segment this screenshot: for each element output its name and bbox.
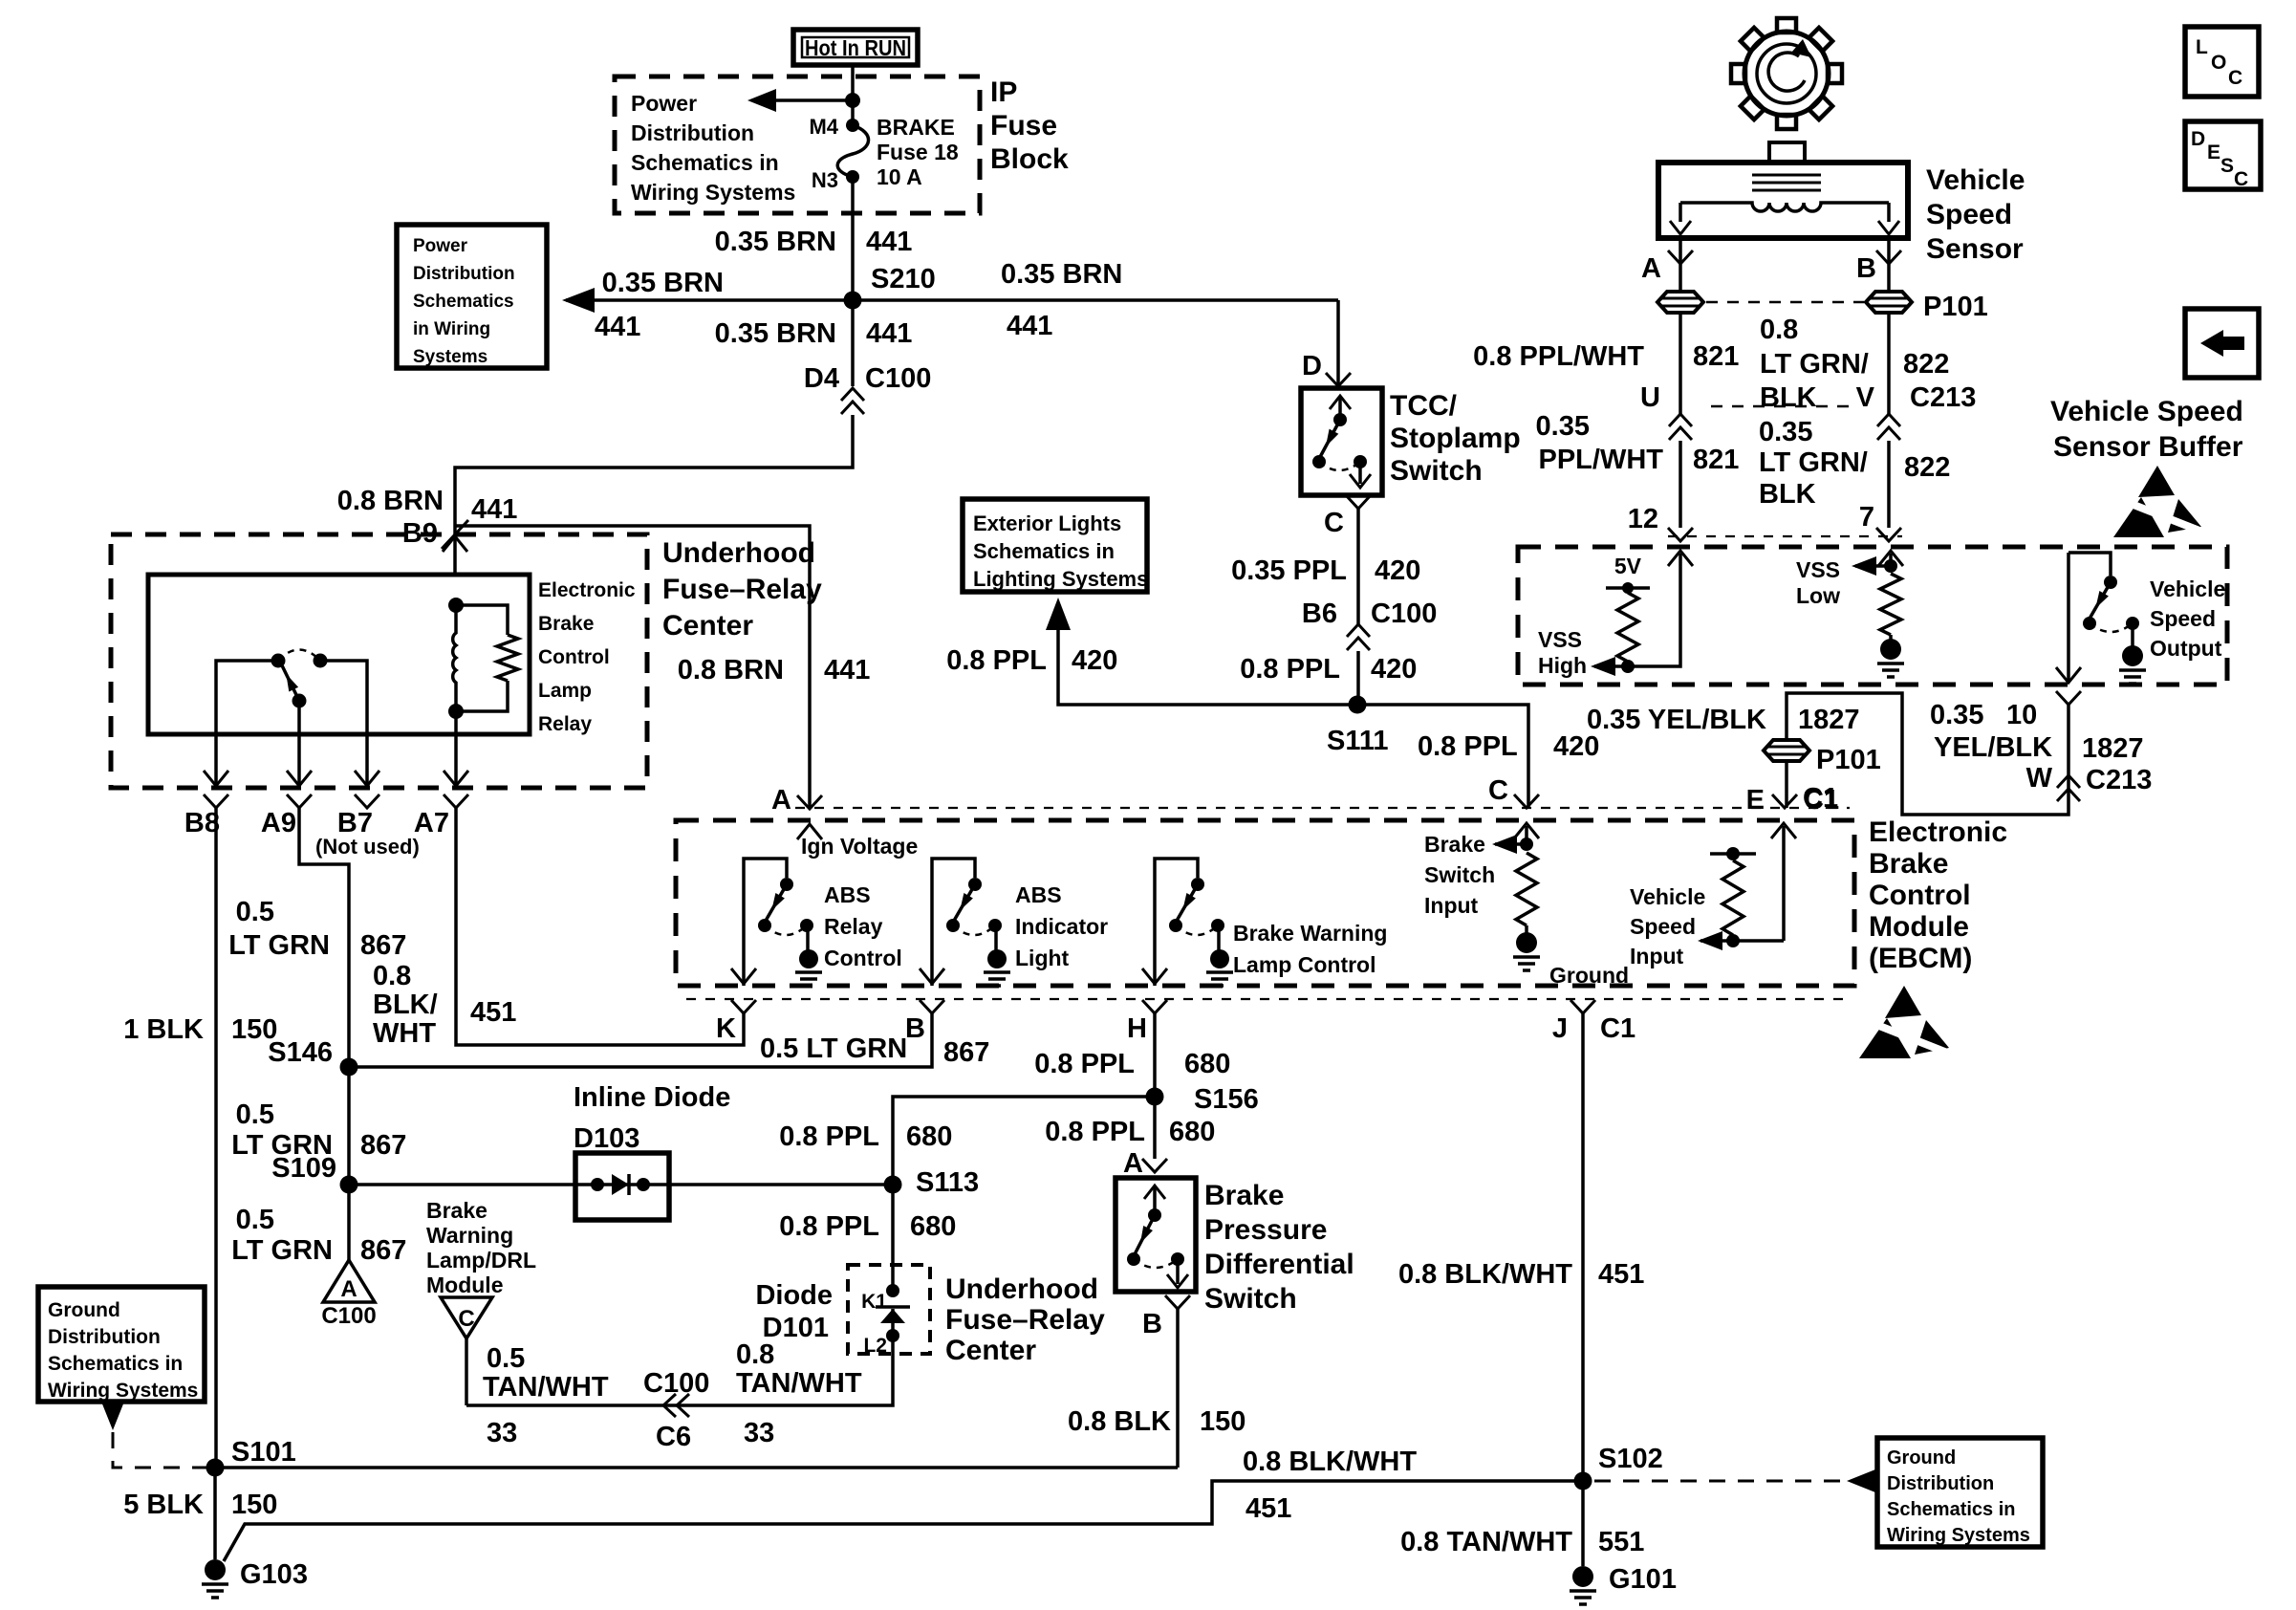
svg-text:Wiring Systems: Wiring Systems xyxy=(48,1380,198,1402)
svg-text:680: 680 xyxy=(1184,1049,1230,1079)
VSI pullup top node xyxy=(1726,847,1740,860)
svg-text:D: D xyxy=(2191,128,2205,150)
svg-text:LT GRN/: LT GRN/ xyxy=(1760,349,1869,380)
svg-text:Low: Low xyxy=(1796,583,1840,608)
svg-text:C213: C213 xyxy=(1910,382,1976,413)
pin chevron B7 xyxy=(355,794,379,808)
TCC switch internals xyxy=(1330,396,1351,409)
svg-text:Systems: Systems xyxy=(413,347,487,367)
pin exit arrow x=477 xyxy=(444,771,468,786)
connector tick B9 xyxy=(442,520,468,549)
svg-text:0.8: 0.8 xyxy=(1760,315,1798,345)
vehicle speed sensor tone wheel (gear) xyxy=(1731,18,1842,129)
svg-text:Block: Block xyxy=(990,143,1069,175)
svg-text:0.5: 0.5 xyxy=(487,1343,525,1374)
connector C213 pin V (double chevron) xyxy=(1877,414,1900,440)
svg-text:Control: Control xyxy=(824,946,902,970)
svg-text:0.8 PPL: 0.8 PPL xyxy=(946,645,1047,676)
fuse terminal M4 xyxy=(846,119,859,132)
svg-text:0.8 TAN/WHT: 0.8 TAN/WHT xyxy=(1400,1527,1572,1557)
svg-text:Sensor Buffer: Sensor Buffer xyxy=(2053,431,2243,463)
svg-text:867: 867 xyxy=(360,1130,406,1161)
svg-text:Relay: Relay xyxy=(824,914,883,939)
pin exit arrow x=226 xyxy=(204,771,228,786)
svg-text:S101: S101 xyxy=(231,1437,296,1468)
Ground Distribution Schematics reference box (right) xyxy=(1877,1438,2043,1547)
svg-text:420: 420 xyxy=(1375,555,1420,586)
pin chevron H xyxy=(1142,1000,1167,1013)
fuse BRAKE Fuse 18 10A element xyxy=(837,125,868,177)
svg-text:in Wiring: in Wiring xyxy=(413,319,490,339)
svg-text:Fuse 18: Fuse 18 xyxy=(877,140,959,164)
svg-text:Vehicle: Vehicle xyxy=(2150,577,2225,601)
svg-text:Switch: Switch xyxy=(1390,455,1483,487)
wire 0.8 PPL 420 to S111 xyxy=(1356,651,1360,705)
svg-text:Power: Power xyxy=(413,236,468,256)
Brake Warning Lamp Control pivot xyxy=(1191,878,1204,891)
ground G101 xyxy=(1572,1566,1593,1587)
Power Distribution Schematics reference box xyxy=(397,225,547,368)
wire 0.5 LT GRN 867 S146 to EBCM B xyxy=(349,1012,932,1067)
wire 0.8 PPL 680 S109 to S113 (inline diode row) xyxy=(349,1183,893,1186)
BPDS switch arm xyxy=(1135,1215,1155,1254)
svg-text:O: O xyxy=(2211,52,2226,74)
svg-text:High: High xyxy=(1538,653,1587,678)
pin entry arrow E xyxy=(1771,823,1796,838)
svg-text:C: C xyxy=(1324,508,1344,538)
svg-text:Differential: Differential xyxy=(1204,1249,1354,1280)
VSI bottom node xyxy=(1726,934,1740,947)
EBCM dashed box (Electronic Brake Control Module) xyxy=(676,820,1854,986)
back arrow xyxy=(2200,330,2244,357)
pin chevron K xyxy=(731,1000,756,1013)
pin chevron J xyxy=(1570,1000,1595,1013)
svg-text:5V: 5V xyxy=(1614,554,1642,578)
svg-text:Distribution: Distribution xyxy=(1887,1473,1994,1494)
sensor core lines xyxy=(1752,175,1821,190)
TCC output stem xyxy=(1358,462,1362,484)
svg-text:Control: Control xyxy=(1869,880,1971,911)
BPDS output stem xyxy=(1176,1259,1180,1284)
wire 0.8 PPL 680 S156 to S113 xyxy=(893,1097,1155,1185)
svg-text:Speed: Speed xyxy=(1926,199,2012,230)
Brake Switch Input network xyxy=(1514,823,1539,838)
dashed reference wire S102 to ground distribution box xyxy=(1594,1480,1845,1483)
svg-text:TCC/: TCC/ xyxy=(1390,390,1458,422)
svg-text:B: B xyxy=(1856,253,1876,284)
svg-text:C: C xyxy=(2234,168,2248,190)
relay switch arm xyxy=(281,664,299,701)
VS output left contact xyxy=(2083,617,2096,630)
sensor stub xyxy=(1769,142,1805,163)
svg-text:0.8: 0.8 xyxy=(373,961,411,991)
diode D101 symbol xyxy=(876,1305,910,1309)
pin exit arrow (ABS Indicator Light) xyxy=(920,968,944,984)
svg-text:B6: B6 xyxy=(1302,598,1337,629)
Brake Warning Lamp Control ground stem xyxy=(1217,925,1221,950)
Ground Distribution Schematics reference box (left) xyxy=(38,1287,205,1402)
svg-text:441: 441 xyxy=(866,318,912,349)
Brake Warning Lamp Control right contact xyxy=(1211,919,1224,932)
ABS Relay Control pivot xyxy=(780,878,793,891)
svg-text:PPL/WHT: PPL/WHT xyxy=(1539,445,1664,475)
wire 0.5 TAN/WHT 33 C100 to DRL module C xyxy=(465,1338,468,1405)
svg-text:Brake: Brake xyxy=(1204,1180,1284,1211)
svg-text:E: E xyxy=(2207,141,2220,163)
P101 dashed link xyxy=(1706,301,1864,304)
vehicle speed output switch xyxy=(2069,553,2111,576)
svg-text:680: 680 xyxy=(906,1121,952,1152)
wire 0.35 BRN 441 main horizontal xyxy=(566,298,1338,302)
svg-text:Lamp Control: Lamp Control xyxy=(1233,952,1376,977)
TCC/Stoplamp Switch box xyxy=(1301,388,1382,495)
svg-text:Fuse–Relay: Fuse–Relay xyxy=(662,574,822,605)
resistor vehicle speed input xyxy=(1722,860,1744,935)
LOC reference box xyxy=(2185,27,2259,97)
Brake Pressure Differential Switch box xyxy=(1116,1178,1196,1292)
Underhood Fuse-Relay Center dashed box xyxy=(111,534,647,788)
svg-text:BLK: BLK xyxy=(1760,382,1817,413)
ground symbol (VS output) xyxy=(2122,645,2143,666)
svg-text:867: 867 xyxy=(360,930,406,961)
wire 0.8 PPL/WHT 821 xyxy=(1679,313,1682,414)
pin chevron E (EBCM) xyxy=(1772,794,1797,808)
VS output dashed arc xyxy=(2090,623,2133,632)
TCC switch arm xyxy=(1320,420,1340,457)
svg-text:Distribution: Distribution xyxy=(631,120,754,145)
junction S111 xyxy=(1349,696,1367,714)
svg-text:12: 12 xyxy=(1628,504,1658,534)
wire sensor A to P101 xyxy=(1679,238,1682,294)
svg-text:U: U xyxy=(1640,382,1660,413)
svg-text:S109: S109 xyxy=(271,1153,336,1184)
ABS Relay Control arm xyxy=(766,884,787,921)
relay resistor parallel branch xyxy=(456,605,508,635)
relay switch pivot xyxy=(271,654,286,668)
connector C213 pin U (double chevron) xyxy=(1669,414,1692,440)
svg-text:P101: P101 xyxy=(1923,292,1988,322)
svg-text:0.35: 0.35 xyxy=(1759,417,1812,447)
EBCM connector face line (bottom) xyxy=(686,998,1850,1000)
svg-text:441: 441 xyxy=(824,655,870,685)
svg-text:J: J xyxy=(1552,1013,1568,1044)
Brake Warning Lamp Control arm xyxy=(1177,884,1198,921)
svg-text:LT GRN/: LT GRN/ xyxy=(1759,447,1868,478)
wire 5 BLK 150 S101 to G103 xyxy=(213,1468,217,1559)
EBCM switch ABS Indicator Light xyxy=(932,859,975,986)
BPDS top contact xyxy=(1148,1208,1161,1222)
wire VSI to pin E xyxy=(1782,826,1786,941)
relay coil bottom node xyxy=(448,704,464,719)
ground symbol (ABS Indicator Light) xyxy=(987,949,1007,968)
pin chevron A (VSS) xyxy=(1668,250,1693,264)
svg-text:Underhood: Underhood xyxy=(945,1273,1098,1305)
relay coil top node xyxy=(448,598,464,613)
svg-text:0.5 LT GRN: 0.5 LT GRN xyxy=(760,1033,907,1064)
svg-text:0.5: 0.5 xyxy=(236,897,274,927)
svg-text:451: 451 xyxy=(470,997,516,1028)
svg-text:K: K xyxy=(716,1013,736,1044)
pin chevron A7 xyxy=(444,794,468,808)
svg-text:33: 33 xyxy=(487,1418,517,1448)
svg-text:Center: Center xyxy=(945,1335,1036,1366)
grommet connector P101 (A) xyxy=(1657,292,1703,313)
svg-text:ABS: ABS xyxy=(1015,882,1062,907)
svg-text:S146: S146 xyxy=(268,1037,333,1068)
ABS Indicator Light dashed arc xyxy=(953,925,995,935)
svg-text:Schematics in: Schematics in xyxy=(48,1353,183,1375)
wire 0.35 YEL/BLK 1827 buffer W to EBCM E xyxy=(1787,693,2069,815)
pin exit arrow (Brake Warning Lamp Control) xyxy=(1142,968,1167,984)
svg-text:S: S xyxy=(2220,155,2234,177)
junction S210 xyxy=(844,292,862,310)
pin chevron C (EBCM) xyxy=(1514,794,1539,808)
DESC reference box xyxy=(2185,121,2261,189)
svg-text:C100: C100 xyxy=(1371,598,1437,629)
svg-text:(Not used): (Not used) xyxy=(315,835,420,859)
wire 441 fuse N3 to S210 xyxy=(851,177,855,299)
ground symbol (brake switch input) xyxy=(1516,932,1537,953)
wire 0.5 LT GRN 867 S109 to C100 A xyxy=(347,1185,351,1260)
wire 0.8 PPL 680 S156 to BPDS A xyxy=(1153,1097,1157,1159)
svg-text:441: 441 xyxy=(1007,311,1052,341)
svg-text:0.8 PPL: 0.8 PPL xyxy=(779,1121,879,1152)
pin exit arrow (ABS Relay Control) xyxy=(731,968,756,984)
svg-text:420: 420 xyxy=(1371,654,1417,685)
svg-text:0.8: 0.8 xyxy=(736,1339,774,1370)
svg-text:7: 7 xyxy=(1859,502,1874,533)
relay switch contact xyxy=(314,654,328,668)
pin chevron D xyxy=(1326,373,1351,386)
VS output right contact xyxy=(2126,617,2139,630)
svg-text:Vehicle: Vehicle xyxy=(1630,884,1705,909)
svg-text:Fuse: Fuse xyxy=(990,110,1057,141)
sensor coil xyxy=(1680,203,1889,211)
wire 0.8 PPL 420 S111 to exterior lights xyxy=(1058,622,1357,705)
svg-text:822: 822 xyxy=(1903,349,1949,380)
svg-text:Schematics: Schematics xyxy=(413,292,514,312)
Exterior Lights Schematics reference box xyxy=(963,499,1147,592)
svg-text:1827: 1827 xyxy=(1798,705,1860,735)
pin exit arrow x=313 xyxy=(287,771,312,786)
5V top node xyxy=(1622,582,1634,594)
wire 0.8 BLK/WHT 451 to S102 (bottom run) xyxy=(224,1481,1583,1561)
connector C213 pin W (double chevron) xyxy=(2057,775,2080,801)
pin chevron B xyxy=(920,1000,944,1013)
wire to power distribution (arrow) xyxy=(755,98,853,102)
svg-text:0.8 PPL: 0.8 PPL xyxy=(1418,731,1518,762)
svg-text:C1: C1 xyxy=(1803,783,1838,814)
wire 0.8 TAN/WHT 33 D101 L2 to C100 xyxy=(466,1336,893,1405)
VS output ground stem xyxy=(2131,623,2134,646)
svg-text:0.8 PPL: 0.8 PPL xyxy=(779,1211,879,1242)
brake switch input node xyxy=(1520,838,1533,851)
svg-text:Speed: Speed xyxy=(2150,606,2216,631)
svg-text:Ground: Ground xyxy=(1887,1447,1956,1469)
Electronic Brake Control Lamp Relay box xyxy=(148,575,530,734)
svg-text:A: A xyxy=(1641,253,1661,284)
pin chevron A (BPDS) xyxy=(1142,1159,1167,1172)
svg-text:0.8 BLK: 0.8 BLK xyxy=(1068,1406,1171,1437)
ABS Relay Control right contact xyxy=(800,919,813,932)
junction S113 xyxy=(884,1176,902,1194)
wire 0.35 PPL/WHT 821 xyxy=(1679,441,1682,528)
svg-text:S113: S113 xyxy=(916,1167,979,1198)
IP Fuse Block dashed box xyxy=(615,76,980,213)
EBCM switch Brake Warning Lamp Control xyxy=(1155,859,1198,986)
EBCM connector face line (top) xyxy=(795,807,1850,809)
arrow from ground distribution box xyxy=(101,1402,124,1430)
svg-text:Brake: Brake xyxy=(1869,848,1948,880)
wire 0.8 PPL 680 S113 to D101 K1 xyxy=(891,1185,895,1291)
svg-text:Wiring Systems: Wiring Systems xyxy=(1887,1525,2030,1546)
svg-text:TAN/WHT: TAN/WHT xyxy=(483,1372,609,1403)
svg-text:A: A xyxy=(1123,1148,1143,1179)
svg-text:0.35 BRN: 0.35 BRN xyxy=(602,268,724,298)
Brake Warning Lamp Control left contact xyxy=(1169,919,1182,932)
svg-text:867: 867 xyxy=(943,1037,989,1068)
diode D103 anode node xyxy=(591,1178,604,1191)
off-page triangle connector C (DRL module) xyxy=(441,1297,492,1338)
svg-text:Indicator: Indicator xyxy=(1015,914,1108,939)
svg-text:W: W xyxy=(2026,763,2053,794)
pin chevron W xyxy=(2056,691,2081,705)
svg-text:Relay: Relay xyxy=(538,713,592,735)
svg-text:C1: C1 xyxy=(1600,1013,1635,1044)
svg-text:Ground: Ground xyxy=(48,1299,120,1321)
connector C100 pin D4 (double chevron) xyxy=(841,388,864,414)
svg-text:V: V xyxy=(1856,382,1875,413)
svg-text:0.5: 0.5 xyxy=(236,1099,274,1130)
svg-text:S102: S102 xyxy=(1598,1444,1663,1474)
svg-text:Warning: Warning xyxy=(426,1223,513,1248)
svg-text:Module: Module xyxy=(426,1273,504,1297)
svg-text:Output: Output xyxy=(2150,636,2222,661)
BPDS right contact xyxy=(1171,1252,1184,1266)
svg-text:Distribution: Distribution xyxy=(413,264,515,284)
VSS High arrow line xyxy=(1594,664,1628,668)
pin entry arrow A xyxy=(797,824,822,839)
junction S109 xyxy=(340,1176,358,1194)
svg-text:0.35 YEL/BLK: 0.35 YEL/BLK xyxy=(1587,705,1766,735)
svg-text:A: A xyxy=(771,785,791,816)
svg-text:451: 451 xyxy=(1598,1259,1644,1290)
wire branch 0.8 BRN 441 to EBCM pin A xyxy=(455,526,810,809)
junction S156 xyxy=(1146,1088,1164,1106)
svg-text:Lamp/DRL: Lamp/DRL xyxy=(426,1248,536,1273)
wire Hot In RUN to fuse M4 xyxy=(851,65,855,125)
ESD sensitivity symbol (EBCM) xyxy=(1885,986,1921,1018)
BPDS switch internals xyxy=(1144,1186,1165,1199)
svg-text:Module: Module xyxy=(1869,911,1969,943)
svg-text:Schematics in: Schematics in xyxy=(1887,1499,2016,1520)
off-page triangle connector A C100 xyxy=(323,1260,375,1302)
svg-text:Inline Diode: Inline Diode xyxy=(574,1082,730,1113)
svg-text:Diode: Diode xyxy=(755,1280,833,1311)
svg-text:551: 551 xyxy=(1598,1527,1644,1557)
pin chevron B (VSS) xyxy=(1876,250,1901,264)
svg-text:Input: Input xyxy=(1424,893,1479,918)
svg-text:L2: L2 xyxy=(863,1335,887,1357)
svg-text:0.35: 0.35 xyxy=(1930,700,1983,730)
svg-text:441: 441 xyxy=(866,227,912,257)
svg-text:0.8 PPL: 0.8 PPL xyxy=(1045,1117,1145,1147)
svg-text:451: 451 xyxy=(1245,1493,1291,1524)
ABS Indicator Light left contact xyxy=(946,919,960,932)
svg-text:Sensor: Sensor xyxy=(1926,233,2024,265)
ABS Indicator Light arm xyxy=(954,884,975,921)
dashed reference wire to S101 xyxy=(113,1432,206,1468)
svg-text:680: 680 xyxy=(1169,1117,1215,1147)
svg-text:Lamp: Lamp xyxy=(538,680,592,702)
wire relay contact to B7 (not used) xyxy=(320,661,367,788)
C213 dashed link xyxy=(1711,405,1858,408)
wire 0.8 BLK 150 S101 to BPDS B (horizontal) xyxy=(215,1466,1178,1469)
svg-text:C: C xyxy=(458,1306,474,1332)
relay switch arm node xyxy=(292,694,307,708)
pin chevron 7 xyxy=(1876,528,1901,541)
svg-text:K1: K1 xyxy=(861,1291,887,1313)
svg-text:Pressure: Pressure xyxy=(1204,1214,1327,1246)
svg-text:441: 441 xyxy=(595,312,640,342)
svg-text:867: 867 xyxy=(360,1235,406,1266)
wire 1827 P101 to pin E xyxy=(1785,762,1788,808)
relay switch dashed arc xyxy=(278,650,320,662)
svg-text:N3: N3 xyxy=(812,168,838,192)
pin chevron B8 xyxy=(204,794,228,808)
svg-text:G101: G101 xyxy=(1609,1564,1677,1595)
svg-text:L: L xyxy=(2196,36,2208,58)
buffer pin 7 internal wire xyxy=(1878,551,1903,566)
svg-text:420: 420 xyxy=(1072,645,1117,676)
svg-text:Vehicle: Vehicle xyxy=(1926,164,2025,196)
svg-text:C: C xyxy=(1488,775,1508,806)
svg-text:441: 441 xyxy=(471,494,517,525)
Vehicle Speed Sensor Buffer dashed box xyxy=(1518,547,2227,685)
wire 0.8 BRN 441 C100 to B9 relay xyxy=(455,415,853,575)
svg-text:C6: C6 xyxy=(656,1422,691,1452)
svg-text:A: A xyxy=(340,1276,357,1302)
svg-text:S111: S111 xyxy=(1327,726,1389,756)
BPDS dashed arc xyxy=(1134,1259,1178,1268)
Inline Diode D103 box xyxy=(575,1153,669,1220)
svg-text:Fuse–Relay: Fuse–Relay xyxy=(945,1304,1105,1336)
svg-text:Center: Center xyxy=(662,610,753,642)
wire relay to B8 xyxy=(216,661,278,788)
Vehicle Speed Sensor box xyxy=(1658,163,1908,238)
svg-text:0.8 BRN: 0.8 BRN xyxy=(337,486,444,516)
svg-text:5 BLK: 5 BLK xyxy=(123,1490,204,1520)
svg-text:TAN/WHT: TAN/WHT xyxy=(736,1368,862,1399)
svg-text:E: E xyxy=(1746,785,1765,816)
svg-text:33: 33 xyxy=(744,1418,774,1448)
diode D103 cathode node xyxy=(637,1178,650,1191)
resistor 5V pull-up xyxy=(1617,593,1638,662)
diode D101 body line xyxy=(891,1309,895,1336)
wire 0.8 PPL 680 EBCM H to S156 xyxy=(1153,1012,1157,1097)
VSS High node xyxy=(1621,660,1635,673)
svg-text:M4: M4 xyxy=(809,115,838,139)
Brake Warning Lamp Control dashed arc xyxy=(1176,925,1218,935)
svg-text:WHT: WHT xyxy=(373,1018,436,1049)
svg-text:Input: Input xyxy=(1630,944,1684,968)
svg-text:Control: Control xyxy=(538,646,610,668)
svg-text:Lighting Systems: Lighting Systems xyxy=(973,567,1148,591)
svg-text:Speed: Speed xyxy=(1630,914,1696,939)
wire 441 to TCC switch D xyxy=(1336,300,1340,386)
svg-text:822: 822 xyxy=(1904,452,1950,483)
wire VS output to pin W xyxy=(2067,553,2070,681)
